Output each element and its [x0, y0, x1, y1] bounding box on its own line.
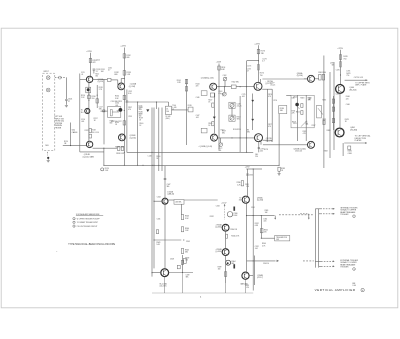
pot box R148	[201, 128, 207, 133]
Q314 stub	[297, 106, 299, 109]
svg-text:T140: T140	[172, 105, 176, 107]
wire trig stub drop	[308, 214, 310, 218]
svg-text:R322: R322	[303, 131, 307, 133]
resistor R346	[181, 260, 183, 264]
junction d3	[240, 137, 241, 138]
R124 label	[64, 141, 68, 145]
inner resistor bar	[110, 110, 112, 116]
wire bus v3	[158, 108, 160, 172]
resistor R343	[181, 215, 183, 220]
resistor rail R323	[323, 120, 325, 124]
revision date	[352, 283, 355, 287]
value label f4	[85, 130, 89, 132]
value label f41	[210, 216, 214, 218]
resistor R118	[89, 129, 92, 133]
junction rail mid	[124, 110, 125, 111]
wire supply drop C	[257, 45, 259, 82]
legend row 1	[77, 218, 100, 220]
svg-text:C470: C470	[336, 70, 340, 72]
svg-text:(02-17): (02-17)	[257, 277, 263, 279]
svg-text:SEL: SEL	[186, 277, 189, 279]
svg-text:OFF: OFF	[276, 239, 279, 241]
capacitor C178	[258, 147, 260, 148]
svg-text:C311: C311	[293, 123, 297, 125]
wire Q114A out	[93, 78, 104, 80]
+225V supply label D	[337, 48, 343, 50]
svg-text:C351: C351	[251, 207, 255, 209]
value label f47	[96, 59, 100, 61]
junction sigbot	[231, 137, 232, 138]
svg-text:750: 750	[343, 58, 346, 60]
capacitor C317	[309, 98, 311, 99]
lower labels a	[185, 257, 189, 261]
transistor Q143B	[211, 134, 218, 141]
transistor V321 small	[226, 260, 231, 265]
junction f1	[340, 74, 341, 75]
svg-text:180: 180	[218, 268, 221, 270]
svg-text:C176: C176	[273, 100, 277, 102]
resistor R113	[89, 58, 91, 62]
svg-text:2.7: 2.7	[96, 71, 99, 73]
svg-text:(Q-334): (Q-334)	[257, 200, 264, 202]
svg-text:R334 1K: R334 1K	[230, 229, 237, 231]
R334 label	[230, 229, 237, 231]
wire trig bracket v1	[314, 209, 316, 268]
trigger pickoff box	[275, 236, 290, 241]
ground R189	[278, 172, 281, 175]
R361 top label	[265, 210, 269, 214]
C140 label	[139, 107, 143, 115]
svg-text:4.7: 4.7	[247, 71, 249, 73]
wire box drop v1	[297, 128, 299, 141]
stage5 bottom label a	[295, 150, 302, 152]
wire sig to stage5 top	[262, 78, 307, 80]
wire DL out	[172, 109, 189, 111]
svg-text:R332: R332	[210, 216, 214, 218]
Q114A label	[98, 78, 105, 83]
value label f12	[139, 118, 143, 122]
wire stage2 rail	[123, 48, 125, 166]
resistor R344	[181, 227, 183, 232]
svg-text:R122: R122	[85, 130, 89, 132]
wire stage5 rail3	[333, 62, 335, 150]
wire dotted drop	[224, 205, 226, 220]
capacitor C601	[65, 99, 68, 100]
svg-text:TRIGGER PICK: TRIGGER PICK	[276, 237, 288, 239]
junction x5	[218, 86, 219, 87]
cluster labels2	[111, 121, 122, 123]
transistor V334A	[222, 224, 229, 231]
wire stage4 h2	[263, 139, 273, 141]
value label f21	[221, 94, 225, 96]
value label f1	[95, 74, 99, 78]
wire v246	[246, 61, 248, 153]
wire center pair	[225, 231, 227, 248]
value label f44	[218, 266, 222, 270]
R344 label	[185, 228, 189, 232]
svg-text:68: 68	[332, 65, 334, 67]
R153 label	[221, 67, 225, 71]
resistor R338	[224, 272, 226, 277]
svg-text:R120: R120	[99, 87, 103, 89]
svg-text:R137: R137	[128, 107, 132, 109]
svg-text:L114: L114	[95, 132, 99, 134]
resistor R362	[260, 229, 263, 233]
svg-text:R472: R472	[322, 100, 326, 102]
V343A label	[167, 190, 174, 195]
svg-text:27: 27	[68, 101, 70, 103]
Q173B label	[266, 138, 273, 142]
value label f42	[216, 205, 220, 207]
T343 inner	[175, 202, 182, 204]
junction c4	[153, 165, 154, 166]
svg-text:C174: C174	[247, 69, 251, 71]
svg-text:C162: C162	[223, 75, 227, 77]
capacitor C334	[246, 174, 249, 175]
resistor R474	[332, 119, 334, 123]
svg-text:(Q-114) GAIN: (Q-114) GAIN	[83, 156, 95, 159]
legend header	[76, 213, 100, 216]
svg-text:SEL: SEL	[280, 110, 283, 112]
input connector J1	[46, 76, 50, 80]
R158 label	[233, 129, 241, 131]
wire ground bus lower	[152, 292, 253, 294]
capacitor circle C336	[227, 212, 232, 217]
trimmer C162	[223, 77, 227, 81]
svg-text:250: 250	[255, 156, 258, 158]
wire stage3 rail	[218, 64, 220, 150]
junction bl1	[182, 272, 183, 273]
transistor wedge Q144	[213, 117, 216, 119]
wire +225 stub	[246, 168, 262, 170]
svg-text:R352: R352	[255, 223, 259, 225]
svg-text:PLATES: PLATES	[355, 139, 363, 142]
value label f3	[99, 107, 103, 111]
wire trigger line	[247, 215, 275, 217]
value label f43	[251, 207, 255, 209]
transistor Q143A	[210, 83, 217, 90]
pot R316 arrow	[318, 108, 323, 114]
svg-text:+225V: +225V	[254, 43, 260, 45]
wire 50ohm cable	[70, 123, 72, 146]
svg-text:+225V: +225V	[120, 46, 126, 48]
svg-text:R362: R362	[264, 230, 268, 232]
value label f22	[221, 130, 225, 132]
R343 label	[185, 216, 189, 220]
R145 label	[188, 105, 192, 107]
R132 label	[114, 72, 118, 76]
wire box feed	[168, 102, 170, 106]
trigger arrow 4	[321, 265, 335, 267]
wire rail to V343A	[154, 200, 162, 202]
svg-text:C341: C341	[157, 218, 161, 220]
svg-text:C345: C345	[186, 241, 190, 243]
wire bus v2	[156, 102, 158, 109]
resistor R153	[218, 66, 220, 70]
resistor R116	[88, 95, 91, 99]
external trigger note	[340, 259, 358, 269]
svg-text:(Q-134): (Q-134)	[130, 138, 137, 140]
resistor R486	[348, 146, 351, 150]
svg-text:C124 SEL R125: C124 SEL R125	[111, 101, 123, 103]
wire lower v183	[182, 255, 184, 273]
wire stage1 left rail	[79, 74, 81, 152]
wire cap to gnd	[65, 101, 67, 105]
wire stage5 rail2	[329, 72, 331, 158]
transistor V334B	[222, 249, 229, 256]
wire line rail L2	[153, 108, 155, 269]
C163 label	[218, 91, 222, 95]
wire trig bracket v2	[318, 209, 320, 268]
svg-text:R139: R139	[139, 118, 143, 120]
capacitor C113	[93, 69, 96, 70]
R117 label	[94, 118, 98, 122]
svg-text:(LAB-34): (LAB-34)	[167, 193, 174, 196]
resistor R134	[123, 95, 125, 99]
trigger arrow 2	[323, 213, 335, 215]
Q334B adj	[240, 283, 248, 286]
svg-text:470: 470	[264, 232, 267, 234]
input label	[44, 71, 50, 73]
svg-text:SEL: SEL	[99, 109, 102, 111]
ground attenuator	[47, 159, 50, 162]
wire trim v	[231, 107, 233, 116]
R189 label	[281, 168, 285, 172]
svg-text:L140: L140	[148, 156, 152, 158]
value label f32	[312, 125, 316, 127]
wire Q334B link	[249, 275, 253, 277]
resistor R189	[278, 167, 280, 171]
svg-text:SEL: SEL	[237, 119, 240, 121]
wire cap v	[247, 169, 249, 196]
svg-text:L-140: L-140	[172, 107, 176, 109]
svg-text:.005: .005	[260, 150, 263, 152]
value label f39	[186, 241, 190, 243]
Q484 label	[350, 127, 357, 131]
feedback network box	[291, 95, 314, 128]
svg-text:DL140: DL140	[166, 116, 171, 118]
wire rail to Q114A	[80, 78, 87, 80]
svg-text:C136: C136	[138, 106, 142, 108]
component box R184	[279, 106, 287, 114]
trimmer C172	[219, 143, 223, 147]
svg-text:.005: .005	[263, 221, 266, 223]
svg-text:C117: C117	[99, 107, 103, 109]
wire trig bracket bend4	[319, 265, 321, 267]
svg-text:+225V: +225V	[337, 48, 343, 50]
svg-text:R124: R124	[64, 141, 68, 143]
wire V343A out	[168, 199, 174, 201]
R135 label	[115, 122, 119, 126]
svg-text:114: 114	[81, 112, 84, 114]
svg-text:+225V: +225V	[216, 61, 222, 63]
R138 label	[116, 153, 124, 155]
svg-text:C163: C163	[218, 91, 222, 93]
resistor R151b	[210, 93, 214, 97]
C162 label	[223, 75, 227, 77]
junction x7	[153, 201, 154, 202]
C349 label	[186, 275, 190, 279]
R133 label	[127, 72, 131, 76]
+225V supply label C	[254, 43, 260, 45]
capacitor C343	[164, 179, 167, 180]
circled plus	[361, 288, 364, 292]
wire box drop v2	[305, 128, 307, 141]
wire base feed a	[104, 78, 107, 80]
svg-text:680: 680	[127, 57, 130, 59]
value label f7	[128, 107, 132, 111]
internal trigger note	[340, 206, 358, 216]
wire Q304A in	[304, 78, 308, 80]
dark component W334	[233, 207, 235, 211]
wire drop t16	[164, 277, 166, 293]
value label f23	[268, 94, 272, 98]
R118 label	[92, 130, 96, 134]
wire drop q334b	[245, 279, 247, 293]
trig stub arrow	[308, 218, 310, 220]
wire V343A to BL134A	[164, 204, 166, 269]
wire cable to amp	[63, 145, 87, 147]
svg-text:470: 470	[196, 86, 199, 88]
wire stage5 rail	[323, 56, 325, 169]
value label f34	[346, 96, 350, 100]
svg-text:.01: .01	[138, 108, 140, 110]
wire stage1 bottom	[80, 151, 104, 153]
resistor R141	[185, 79, 187, 83]
svg-text:2: 2	[353, 216, 354, 218]
svg-text:330: 330	[95, 76, 98, 78]
svg-text:470: 470	[128, 109, 131, 111]
value label f17	[196, 97, 200, 99]
interstage box	[108, 107, 121, 118]
R184 inner	[280, 108, 284, 112]
junction x8	[151, 272, 152, 273]
resistor R335	[226, 234, 228, 238]
transistor Q464	[336, 85, 345, 94]
R141 label	[177, 80, 182, 84]
svg-text:R162 SEL: R162 SEL	[232, 81, 239, 83]
wire R184 drop	[278, 114, 280, 166]
cluster labels	[111, 101, 123, 103]
wire sig top	[217, 86, 232, 88]
svg-text:.001: .001	[255, 248, 258, 250]
svg-text:R112: R112	[95, 74, 99, 76]
resistor R314	[301, 104, 303, 108]
svg-text:+12.5V: +12.5V	[221, 202, 227, 204]
C113 label	[96, 69, 100, 73]
wire Q304A out	[315, 78, 319, 80]
wire bus v1	[137, 102, 139, 165]
inductor L470	[340, 62, 342, 68]
junction x4	[124, 165, 125, 166]
upper output note	[355, 82, 370, 86]
resistor R133	[123, 71, 125, 76]
R173 label	[261, 51, 265, 55]
value label f45	[255, 154, 258, 158]
trimmer C143	[229, 102, 235, 108]
svg-text:C135: C135	[128, 116, 132, 118]
wire Q484 down	[342, 143, 344, 156]
svg-text:GAIN ADJ: GAIN ADJ	[240, 283, 248, 286]
cable label	[72, 130, 79, 134]
junction pick	[261, 238, 262, 239]
pot box R145	[188, 107, 193, 112]
DL140 label	[172, 105, 176, 111]
resistor R341	[156, 230, 158, 234]
svg-text:R312: R312	[296, 111, 300, 113]
wire BL134A out	[169, 272, 193, 274]
wire dashed input to cable	[55, 77, 67, 79]
wire V343A out drop	[180, 204, 182, 214]
TD114 label	[81, 110, 84, 114]
resistor R470	[339, 55, 341, 60]
resistor R162	[231, 85, 236, 89]
value label f13	[139, 123, 143, 127]
transistor Q114B	[86, 141, 92, 147]
wire input drop	[65, 78, 67, 99]
svg-text:L173: L173	[247, 66, 251, 68]
R336 label	[237, 182, 242, 186]
value label f16	[196, 84, 200, 88]
value label f28	[293, 97, 297, 99]
C172 label	[218, 148, 222, 152]
C343 label	[167, 184, 171, 188]
stage2 top labels	[108, 68, 112, 72]
C601 value	[68, 99, 72, 103]
wire trim stub c	[223, 87, 225, 93]
value label f35	[346, 104, 350, 106]
R364 label	[262, 243, 266, 247]
R134 label	[115, 96, 119, 100]
Q464 col labels	[336, 94, 340, 96]
value label f40	[170, 259, 174, 261]
value label f6	[128, 91, 132, 95]
svg-text:R313: R313	[308, 97, 312, 99]
svg-text:8-50: 8-50	[128, 93, 131, 95]
R470 label	[343, 56, 347, 60]
svg-text:(Q-173): (Q-173)	[266, 140, 273, 142]
Q114B label	[83, 153, 95, 158]
resistor L134b	[117, 146, 120, 150]
svg-text:470: 470	[268, 126, 271, 128]
junction a2	[88, 100, 89, 101]
svg-text:.001: .001	[81, 121, 84, 123]
R341 label	[156, 242, 160, 246]
wire Q114B out	[93, 147, 118, 149]
wire stage2 rail2	[126, 90, 128, 153]
wire sig bot	[218, 137, 255, 139]
B+12.5 label	[105, 168, 109, 172]
junction x3	[158, 165, 159, 166]
ground dot	[47, 157, 49, 159]
wire Q173B dn	[260, 141, 262, 145]
junction d1	[240, 86, 241, 87]
svg-text:R126: R126	[110, 121, 114, 123]
svg-text:C362: C362	[263, 219, 267, 221]
transistor Q304A	[308, 75, 315, 82]
wire R189 gnd	[278, 171, 280, 172]
svg-text:(Q-334): (Q-334)	[215, 251, 222, 253]
svg-text:R336: R336	[237, 182, 241, 184]
input note block	[55, 116, 65, 130]
value label f14	[148, 156, 152, 158]
wire supply drop D	[340, 50, 342, 85]
svg-text:DEFL. PLATE: DEFL. PLATE	[355, 84, 367, 87]
value label f10	[138, 106, 142, 110]
R486 label	[348, 151, 352, 155]
junction g1	[246, 152, 247, 153]
svg-text:R478: R478	[345, 119, 349, 121]
